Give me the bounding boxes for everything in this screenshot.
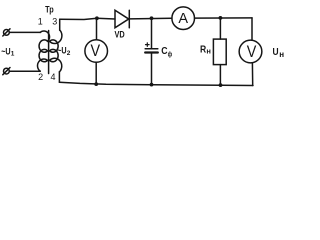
junction dot bottom capacitor [150,83,154,87]
voltmeter PV1 branch top wire [96,18,98,40]
junction dot top resistor [219,16,223,20]
svg-text:U: U [273,46,279,58]
wire down to voltmeter PV2 [251,18,253,40]
resistor R load box [213,39,226,65]
junction dot bottom PV1 [94,82,98,86]
wire ammeter to right corner [195,17,253,19]
svg-text:VD: VD [115,30,126,40]
ammeter PA1 [172,7,195,30]
wire terminal top to transformer primary [10,31,41,33]
capacitor C plates [145,49,158,53]
wire pin4 down to bottom rail [58,72,60,82]
svg-text:V: V [247,43,257,61]
svg-text:ф: ф [168,50,173,59]
wire terminal bottom to transformer primary [10,70,41,72]
bottom rail [59,82,253,85]
junction dot top capacitor [150,16,154,20]
input terminal top [3,29,10,36]
input terminal bottom [3,68,10,75]
resistor top wire [219,18,221,39]
svg-text:~U: ~U [1,46,10,56]
junction dot bottom resistor [219,83,223,87]
svg-text:4: 4 [50,72,55,82]
top rail left segment [60,18,97,19]
transformer T1 secondary winding [50,30,62,72]
capacitor bottom wire [151,54,153,85]
capacitor polarity plus [146,43,150,47]
voltmeter PV2 [239,40,262,63]
transformer T1 primary winding [38,31,50,71]
top rail to diode [97,17,115,20]
wire pin3 up to top rail [59,19,61,30]
junction dot top PV1 [95,16,99,20]
svg-text:1: 1 [38,17,43,27]
svg-text:3: 3 [52,17,57,27]
wire diode to ammeter [130,17,172,20]
svg-text:V: V [91,42,101,60]
svg-text:Тр: Тр [45,5,54,16]
resistor bottom wire [219,65,221,86]
svg-text:A: A [178,11,188,27]
svg-text:2: 2 [67,50,71,57]
svg-text:1: 1 [11,51,15,58]
svg-text:~U: ~U [57,45,66,55]
diode VD [115,10,129,28]
voltmeter PV2 bottom wire [251,63,253,86]
voltmeter PV1 [85,40,108,63]
voltmeter PV1 bottom wire [95,62,97,84]
svg-text:2: 2 [38,72,43,82]
svg-text:н: н [279,50,284,59]
svg-text:н: н [206,47,211,56]
capacitor top wire [151,18,153,48]
transformer core [48,31,50,74]
